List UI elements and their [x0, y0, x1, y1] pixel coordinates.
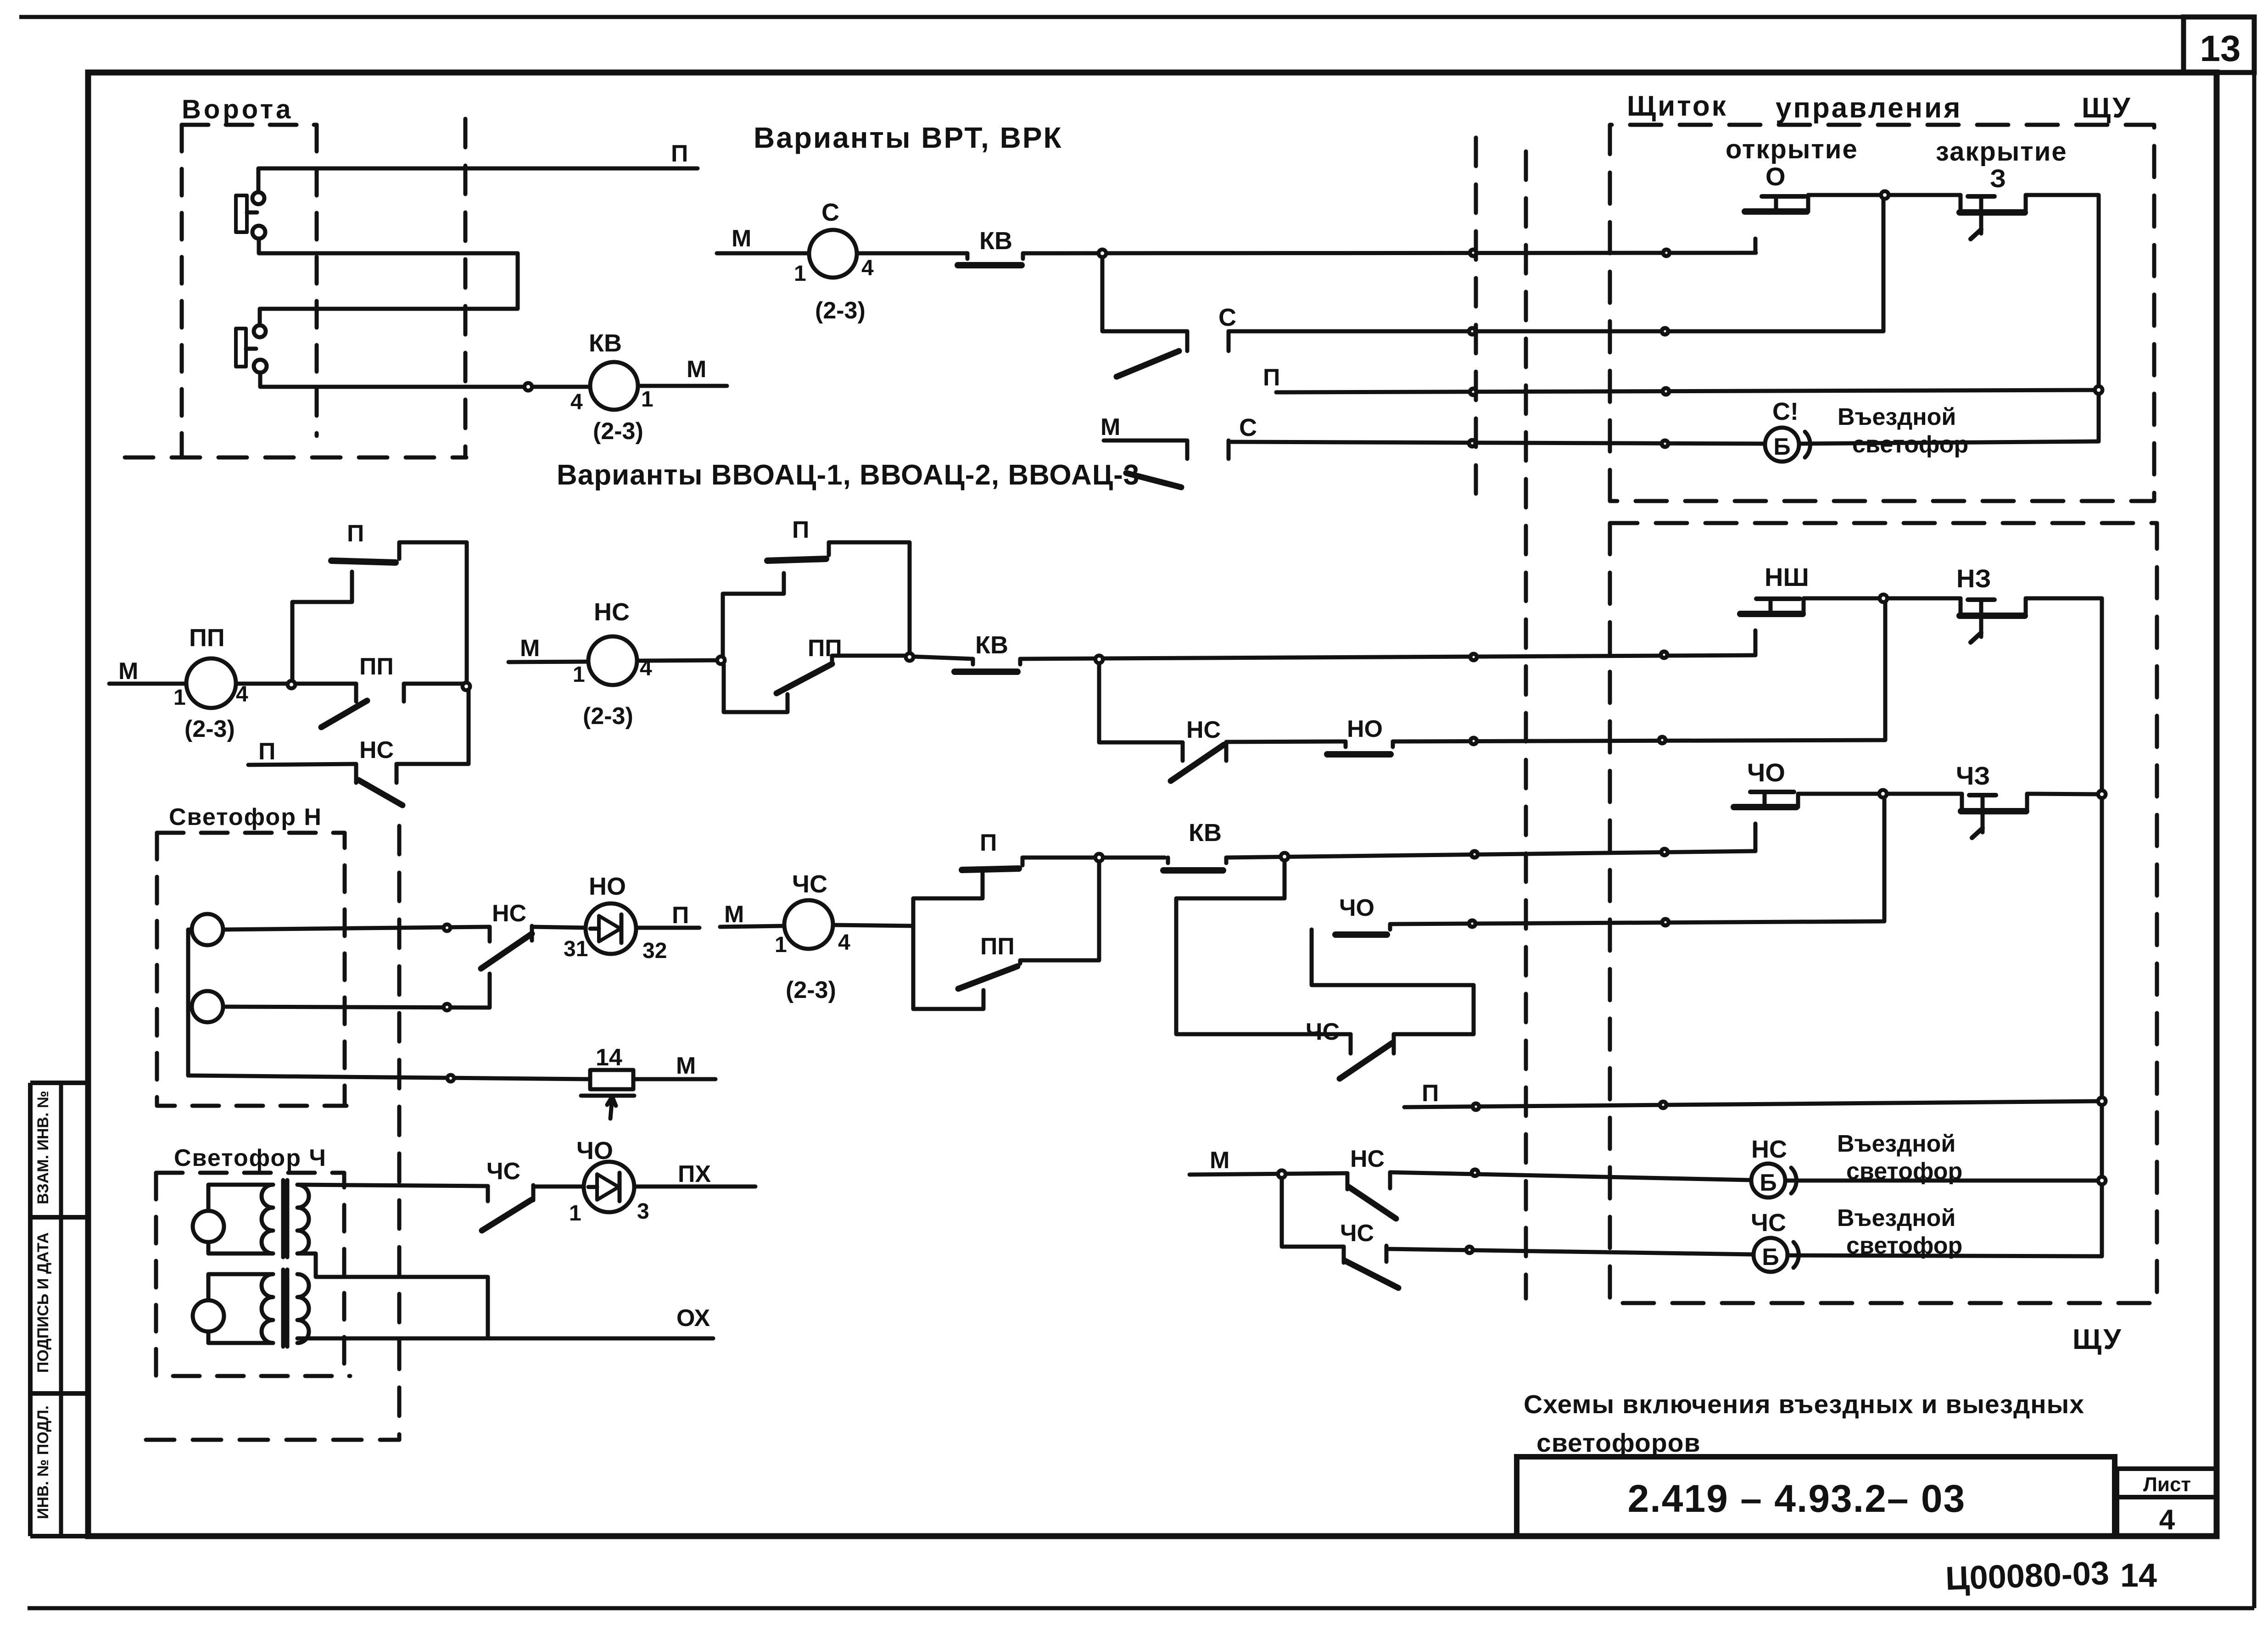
wire П contact to right leg	[399, 542, 467, 683]
svg-text:ПОДПИСЬ И ДАТА: ПОДПИСЬ И ДАТА	[34, 1232, 52, 1373]
svg-text:М: М	[724, 901, 744, 928]
wire lamp1 to НС contact	[223, 927, 490, 930]
node	[1095, 656, 1103, 663]
wire ОХ row	[297, 1337, 713, 1341]
lamp С (въездной светофор)	[1765, 428, 1799, 462]
crossing dot	[1470, 738, 1477, 744]
svg-text:О: О	[1765, 162, 1786, 191]
wire ПП fixed up to node	[1020, 861, 1099, 964]
svg-text:ЧС: ЧС	[1306, 1019, 1340, 1045]
junction node2 (ЧС lamp branch)	[1281, 853, 1288, 860]
svg-text:П: П	[1263, 364, 1280, 391]
diode НО	[586, 903, 636, 954]
stamp cell divider 1	[30, 1215, 88, 1220]
svg-text:Светофор Ч: Светофор Ч	[174, 1145, 327, 1171]
node	[2098, 1177, 2106, 1184]
wire М to С contact	[1104, 439, 1187, 443]
crossing dot	[1471, 851, 1478, 858]
limit switch SQ1 plate	[236, 195, 247, 232]
contact П (НС relay, bar)	[767, 559, 826, 561]
crossing dot	[1661, 652, 1667, 658]
wire П row lower	[1404, 1101, 2102, 1107]
wire node down to С-О row	[1882, 199, 1886, 331]
node	[463, 683, 470, 690]
limit switch SQ2 lower contact	[254, 360, 267, 373]
svg-text:НС: НС	[594, 598, 630, 626]
svg-text:светофоров: светофоров	[1536, 1428, 1701, 1458]
Светофор Н dashed box	[157, 833, 346, 1106]
wire secondary1 top to ЧС contact	[297, 1185, 488, 1186]
junction node1 (НС self-hold)	[717, 657, 725, 664]
wire КВ contact to НШ button	[1020, 655, 1755, 659]
svg-text:Схемы включения въездных и вые: Схемы включения въездных и выездных	[1524, 1390, 2084, 1419]
node на ПП row (П/НС branch joint)	[463, 683, 470, 690]
svg-text:Б: Б	[1760, 1170, 1776, 1196]
resistor 14	[590, 1070, 633, 1089]
cable boundary dashed vertical (left, lower half)	[397, 826, 402, 1440]
junction node (ЧС row)	[1095, 854, 1103, 861]
svg-text:НО: НО	[1347, 716, 1383, 742]
outer page border top	[19, 15, 2254, 19]
common leg down to П row and lamps	[2100, 798, 2104, 1256]
junction node3 (НС-НО branch)	[1095, 656, 1103, 663]
crossing dot	[1473, 1103, 1479, 1110]
wire П contact right leg down	[829, 542, 910, 653]
crossing dot	[1470, 250, 1476, 256]
contact КВ (НС row, closed bar)	[971, 659, 975, 664]
svg-text:С: С	[1218, 304, 1236, 331]
junction node (ЧС lamp branch)	[1278, 1170, 1285, 1178]
svg-text:М: М	[520, 635, 540, 662]
contact КВ (closed bar type)	[966, 253, 970, 259]
transformer 2 primary loop	[208, 1274, 273, 1300]
cable boundary dashed horizontal below gates	[125, 456, 466, 460]
crossing dot	[1469, 920, 1475, 927]
upper control panel box (Щиток управления ЩУ)	[1610, 125, 2154, 501]
node НС lamp row / common leg	[2098, 1177, 2106, 1184]
wire М to node	[1190, 1173, 1347, 1175]
svg-text:П: П	[672, 902, 689, 929]
transformer 2 core	[281, 1270, 285, 1347]
lamp ЧС (въездной светофор)	[1754, 1238, 1788, 1272]
node	[444, 1004, 450, 1010]
crossing dot	[444, 925, 450, 931]
svg-text:1: 1	[794, 262, 806, 286]
wire node2 to КВ contact	[913, 657, 973, 659]
lamp 1 (Светофор Ч)	[193, 1211, 224, 1242]
lamp НС (въездной светофор)	[1751, 1164, 1785, 1198]
title block main box	[1517, 1457, 2115, 1536]
crossing dot	[1662, 328, 1668, 334]
wire ЧС contact up and over to ЧО contact	[1312, 930, 1474, 1034]
wire ЧО diode to ПХ	[634, 1185, 755, 1189]
limit switch SQ2 plate	[236, 329, 246, 367]
svg-text:М: М	[687, 356, 706, 383]
svg-text:ЧС: ЧС	[1751, 1209, 1786, 1237]
svg-text:КВ: КВ	[589, 329, 622, 357]
wire НС contact to НО diode	[532, 927, 586, 928]
svg-text:НС: НС	[492, 900, 526, 927]
crossing dot	[1466, 1247, 1473, 1253]
cable boundary dashed horizontal (bottom left)	[146, 1438, 399, 1442]
contact НО (closed bar)	[1344, 741, 1348, 747]
wire ПП fixed to row	[832, 656, 906, 664]
contact ЧС (closed, opening)	[1349, 1034, 1353, 1053]
node	[1095, 854, 1103, 861]
svg-text:М: М	[1100, 414, 1120, 440]
limit switch SQ2 upper contact	[254, 325, 266, 337]
contact ПП (self-hold, open)	[354, 684, 358, 702]
wire П row	[1276, 390, 2099, 392]
svg-text:ЩУ: ЩУ	[2072, 1324, 2123, 1355]
node П row / common leg	[2098, 1098, 2106, 1105]
wire lamp2 to contact output riser	[223, 974, 490, 1008]
gates dashed box right edge	[315, 125, 319, 436]
svg-text:М: М	[118, 658, 138, 685]
wire lamp1 left down to common	[188, 930, 192, 1075]
svg-text:4: 4	[861, 256, 874, 280]
svg-text:Светофор Н: Светофор Н	[169, 804, 322, 830]
coil НС	[588, 636, 637, 685]
stamp column text strip divider	[59, 1083, 63, 1536]
wire node3 down to НС contact	[1099, 659, 1183, 742]
stamp cell divider 2	[30, 1391, 88, 1396]
svg-text:ПХ: ПХ	[678, 1161, 711, 1187]
limit switch SQ1 upper contact	[252, 192, 264, 204]
gates dashed box top edge	[182, 123, 317, 127]
cable boundary dashed vertical 1 (top centre-right)	[1474, 138, 1478, 501]
contact НС (lamp row, opening)	[1346, 1173, 1350, 1189]
wire ЧС coil to holding block	[833, 925, 913, 926]
coil ПП	[186, 658, 236, 708]
ЧС holding block left riser	[913, 873, 983, 1009]
contact ЧС (diode row, open)	[486, 1186, 490, 1201]
wire lamp to right leg	[1799, 441, 2099, 444]
ЧО left leg (open gap) down to ЧС row	[1754, 824, 1758, 851]
wire ПП contact to node	[404, 682, 463, 686]
svg-text:ЧО: ЧО	[1339, 895, 1374, 921]
svg-text:НС: НС	[359, 737, 394, 763]
wire КВ to ЧО button row	[1226, 851, 1755, 858]
svg-text:14: 14	[596, 1044, 622, 1071]
common return row (to 14 resistor)	[188, 1075, 590, 1079]
gates dashed box left edge	[180, 125, 184, 457]
push button З (NC)	[1959, 195, 1963, 210]
П button branch (НС relay)	[723, 573, 784, 656]
svg-text:П: П	[980, 830, 997, 856]
contact НС (diode row, open)	[488, 927, 492, 942]
svg-text:открытие: открытие	[1726, 134, 1858, 164]
wire НС to НО contact	[1226, 741, 1346, 742]
svg-text:М: М	[676, 1053, 696, 1079]
crossing dot	[1661, 849, 1668, 855]
svg-text:З: З	[1990, 164, 2006, 193]
svg-text:Въездной: Въездной	[1838, 404, 1956, 430]
node	[444, 925, 450, 931]
svg-text:С: С	[821, 199, 839, 226]
wire М node down to ЧС contact	[1282, 1174, 1344, 1247]
wire З button output down to П row and lamp row	[2026, 195, 2099, 441]
contact С (open)	[1185, 331, 1190, 351]
svg-text:4: 4	[2159, 1504, 2175, 1536]
svg-text:НС: НС	[1350, 1146, 1385, 1172]
node	[906, 653, 913, 661]
svg-text:ЩУ: ЩУ	[2082, 92, 2132, 124]
sheet number box (13)	[2184, 17, 2254, 72]
contact С (open, lamp row)	[1185, 440, 1190, 459]
crossing dot	[1470, 389, 1476, 395]
wire НЗ output down to common leg	[2026, 598, 2102, 792]
svg-text:(2-3): (2-3)	[815, 297, 866, 324]
wire НС contact to НС lamp	[1390, 1172, 1751, 1180]
crossing dot	[1470, 654, 1477, 660]
svg-text:(2-3): (2-3)	[786, 977, 836, 1003]
svg-text:Лист: Лист	[2143, 1473, 2191, 1496]
wire resistor to М	[633, 1077, 715, 1081]
wire secondary1 bottom jog	[297, 1254, 488, 1338]
svg-text:закрытие: закрытие	[1936, 137, 2067, 167]
coil С	[809, 230, 857, 278]
node	[2098, 1098, 2106, 1105]
contact НС (closed, opening)	[354, 764, 358, 783]
adjust arrow (resistor 14)	[610, 1098, 612, 1119]
svg-text:НС: НС	[1186, 717, 1221, 743]
transformer 2 secondary coil	[297, 1274, 309, 1343]
svg-text:1: 1	[573, 663, 585, 687]
wire С contact to lamp	[1229, 442, 1765, 444]
НШ left leg (open gap) down to НС row	[1754, 630, 1758, 655]
svg-text:ПП: ПП	[359, 653, 394, 680]
wire М to ПП coil	[109, 682, 186, 686]
svg-text:4: 4	[570, 390, 583, 414]
svg-text:НС: НС	[1751, 1136, 1787, 1163]
svg-text:Въездной: Въездной	[1837, 1131, 1955, 1157]
svg-text:ПП: ПП	[980, 933, 1015, 960]
П button branch (ПП relay)	[292, 572, 352, 680]
wire SQ1 lower loop to SQ2	[259, 239, 518, 325]
wire П to НС contact	[248, 764, 356, 765]
node	[1881, 191, 1888, 199]
wire ЧС lamp to common leg	[1788, 1255, 2102, 1256]
outer page border right	[2252, 17, 2257, 1608]
crossing dot	[447, 1075, 454, 1081]
svg-text:Варианты ВВОАЦ-1, ВВОАЦ-2, ВВ: Варианты ВВОАЦ-1, ВВОАЦ-2, ВВОАЦ-3	[557, 459, 1140, 491]
ПП contact branch (НС self-hold)	[724, 665, 788, 712]
svg-text:3: 3	[637, 1199, 649, 1224]
svg-text:(2-3): (2-3)	[184, 716, 235, 742]
svg-text:13: 13	[2200, 28, 2241, 69]
svg-text:ЧС: ЧС	[1340, 1220, 1374, 1247]
node common leg / ЧЗ	[2098, 791, 2106, 798]
svg-text:управления: управления	[1776, 92, 1962, 124]
node between НШ and НЗ	[1880, 595, 1887, 602]
contact ЧС (lamp row, opening)	[1342, 1247, 1346, 1263]
push button НЗ (NC)	[1959, 598, 1963, 613]
svg-text:П: П	[258, 738, 275, 765]
wire НС lamp to common leg	[1785, 1179, 2102, 1183]
wire НС contact up to node	[397, 690, 469, 764]
wire ЧС contact to ЧО diode	[533, 1185, 584, 1189]
contact ПП (НС self-hold, open arm)	[776, 664, 832, 693]
node between ЧО and ЧЗ	[1879, 790, 1887, 797]
wire КВ coil to М	[638, 384, 727, 388]
wire SQ1 upper to П line	[258, 168, 698, 192]
crossing dot	[1659, 737, 1665, 743]
svg-text:1: 1	[173, 685, 186, 710]
crossing dot	[444, 1004, 450, 1010]
wire НО diode to П	[636, 926, 699, 930]
wire ЧЗ output to common leg	[2027, 794, 2102, 794]
transformer 1 primary coil	[262, 1185, 273, 1254]
svg-text:КВ: КВ	[979, 227, 1012, 255]
wire ЧО output	[1798, 794, 1962, 807]
title block sheet cell	[2117, 1466, 2217, 1471]
node	[1281, 853, 1288, 860]
coil КВ	[590, 362, 638, 410]
node	[288, 681, 295, 688]
node	[1879, 790, 1887, 797]
transformer 1 primary loop	[208, 1185, 273, 1211]
svg-text:(2-3): (2-3)	[593, 418, 643, 445]
svg-text:П: П	[1422, 1080, 1439, 1107]
Светофор Ч dashed box	[156, 1173, 350, 1376]
node between О and З	[1881, 191, 1888, 199]
contact П (ПП relay, bar)	[331, 561, 396, 563]
crossing dot	[1469, 328, 1475, 334]
crossing dot	[1469, 440, 1475, 446]
contact ПП (ЧС self-hold) bottom branch	[913, 990, 983, 1009]
push button НШ	[1740, 611, 1803, 617]
svg-text:ЧО: ЧО	[576, 1137, 613, 1164]
svg-text:ЧС: ЧС	[486, 1158, 520, 1185]
transformer 1 core	[281, 1180, 285, 1257]
wire ЧО contact to panel riser	[1390, 797, 1884, 924]
stamp column left edge	[28, 1083, 33, 1536]
svg-text:2.419 – 4.93.2– 03: 2.419 – 4.93.2– 03	[1628, 1477, 1966, 1520]
wire node down to С contact	[1102, 253, 1187, 331]
svg-text:Ворота: Ворота	[182, 95, 293, 124]
wire ЧС contact to ЧС lamp	[1386, 1249, 1754, 1254]
svg-text:НО: НО	[589, 873, 626, 900]
svg-text:НЗ: НЗ	[1956, 564, 1991, 593]
svg-text:1: 1	[641, 387, 654, 412]
wire node2 down-left-down to ЧС contact	[1176, 857, 1351, 1034]
transformer 2 primary coil	[262, 1274, 273, 1343]
node	[717, 657, 725, 664]
svg-text:НШ: НШ	[1765, 563, 1809, 591]
wire lamp2 left stub	[188, 1005, 192, 1009]
wire НО contact to panel riser	[1393, 602, 1885, 741]
svg-text:ВЗАМ. ИНВ. №: ВЗАМ. ИНВ. №	[34, 1091, 52, 1204]
wire О button output	[1806, 195, 1810, 212]
wire НС coil to node1	[637, 660, 721, 661]
crossing dot	[1662, 919, 1669, 925]
svg-text:Въездной: Въездной	[1837, 1205, 1955, 1231]
lamp 1 (Светофор Н)	[192, 914, 223, 945]
node	[1099, 250, 1106, 257]
junction node on КВ wire	[525, 383, 532, 390]
node	[525, 383, 532, 390]
svg-text:4: 4	[838, 930, 850, 955]
svg-text:1: 1	[569, 1201, 581, 1226]
lamp 2 (Светофор Ч)	[193, 1300, 224, 1332]
push button О	[1745, 208, 1807, 215]
svg-text:(2-3): (2-3)	[583, 703, 633, 730]
svg-text:С: С	[1239, 414, 1257, 441]
diode ЧО	[584, 1162, 634, 1212]
stamp column bottom line	[30, 1534, 88, 1538]
crossing dot	[1663, 250, 1670, 256]
node	[447, 1075, 454, 1081]
junction node (С holding branch)	[1099, 250, 1106, 257]
svg-text:4: 4	[236, 682, 248, 707]
О button left leg (open gap) down to КВ row	[1754, 239, 1758, 253]
lamp 2 (Светофор Н)	[192, 991, 223, 1022]
svg-text:М: М	[1210, 1147, 1229, 1174]
cable boundary dashed vertical (gates area)	[464, 119, 468, 457]
transformer 1 secondary coil	[297, 1185, 309, 1254]
svg-text:ИНВ. № ПОДЛ.: ИНВ. № ПОДЛ.	[34, 1405, 52, 1519]
svg-text:32: 32	[642, 939, 667, 963]
node З button drop	[2095, 386, 2102, 394]
svg-text:КВ: КВ	[975, 631, 1008, 659]
svg-text:14: 14	[2120, 1557, 2157, 1594]
wire ПП coil to node	[236, 682, 356, 686]
svg-text:КВ: КВ	[1189, 819, 1222, 847]
svg-text:ПП: ПП	[189, 624, 225, 652]
contact П (ЧС relay, bar)	[962, 869, 1019, 870]
cable boundary dashed vertical 2 (full height)	[1524, 151, 1528, 1298]
svg-text:1: 1	[775, 933, 787, 957]
svg-text:П: П	[671, 140, 688, 167]
crossing dot	[1660, 1102, 1666, 1108]
node	[1278, 1170, 1285, 1178]
wire С contact to middle node leg	[1229, 329, 1883, 334]
resistor 14 base line	[581, 1094, 634, 1098]
contact НС (closed, opening)	[1181, 742, 1185, 761]
crossing dot	[1472, 1170, 1478, 1176]
svg-text:ОХ: ОХ	[676, 1305, 710, 1332]
wire М to НС coil	[508, 662, 588, 662]
contact ЧО (closed bar)	[1310, 930, 1314, 935]
outer page border bottom	[28, 1606, 2254, 1610]
contact КВ (ЧС row, closed bar)	[1166, 858, 1170, 863]
push button ЧЗ (NC)	[1960, 794, 1964, 809]
svg-text:Б: Б	[1773, 434, 1790, 460]
svg-text:Варианты ВРТ, ВРК: Варианты ВРТ, ВРК	[754, 121, 1063, 154]
svg-text:Ц00080-03: Ц00080-03	[1945, 1555, 2110, 1597]
svg-text:ЧС: ЧС	[792, 870, 827, 898]
coil ЧС	[784, 900, 833, 949]
crossing dot	[1662, 440, 1668, 447]
node	[1880, 595, 1887, 602]
crossing dot	[1663, 388, 1669, 395]
wire М to С coil	[717, 251, 809, 256]
wire НШ output	[1804, 598, 1961, 614]
wire М to ЧС coil	[720, 926, 784, 927]
svg-text:П: П	[347, 520, 364, 547]
node2 (НС self-hold joint)	[906, 653, 913, 661]
node	[2095, 386, 2102, 394]
wire КВ contact to О button	[1023, 253, 1756, 253]
push button ЧО	[1734, 804, 1796, 810]
wire П fixed to row	[1021, 858, 1025, 865]
stamp column top line	[30, 1081, 88, 1085]
svg-text:С!: С!	[1772, 398, 1799, 425]
svg-text:31: 31	[564, 937, 588, 961]
svg-text:ЧО: ЧО	[1747, 758, 1785, 787]
node	[2098, 791, 2106, 798]
